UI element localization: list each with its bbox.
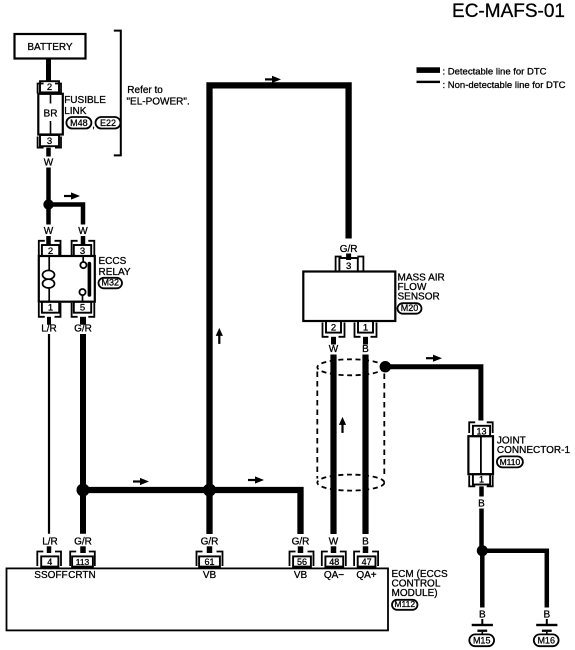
- wire shield drain to joint connector: [385, 367, 481, 421]
- wire stub below relay pin 1: [47, 317, 51, 325]
- svg-text:M20: M20: [401, 303, 419, 313]
- svg-text:48: 48: [329, 557, 339, 567]
- junction node on G/R wire: [77, 484, 90, 497]
- svg-text:VB: VB: [203, 570, 217, 581]
- current-flow arrow on bus (left): [133, 480, 141, 482]
- wire stub below relay pin 5: [80, 317, 86, 325]
- svg-text:E22: E22: [100, 118, 116, 128]
- wire stub to ECM pin 61: [207, 546, 213, 553]
- svg-text:47: 47: [362, 557, 372, 567]
- wire junction to relay pin 3 branch: [49, 205, 84, 225]
- current-flow arrow to relay pin 3: [64, 195, 72, 197]
- svg-text:M15: M15: [473, 636, 491, 646]
- junction node bus / VB supply line: [203, 484, 216, 497]
- power bus to VB pins: [83, 490, 301, 534]
- relay coil: [48, 256, 50, 271]
- relay pin 3: [72, 241, 78, 255]
- wire junction down to relay pin 2: [46, 205, 51, 225]
- wire stub to ECM pin 4: [47, 546, 52, 553]
- current-flow arrow on drain wire: [426, 357, 434, 359]
- relay switch blade: [88, 264, 92, 296]
- wire VB supply loop (thick): [210, 85, 349, 534]
- junction node shield to ground branch: [380, 361, 391, 372]
- joint connector pin 13: [469, 422, 475, 433]
- svg-text:5: 5: [80, 303, 85, 314]
- svg-text:BR: BR: [44, 109, 58, 120]
- svg-text:2: 2: [47, 82, 52, 93]
- ground M16: [546, 619, 548, 624]
- svg-text:W: W: [329, 536, 339, 547]
- ECM pin 56: [290, 552, 296, 567]
- svg-text:3: 3: [47, 136, 52, 147]
- svg-text:M110: M110: [500, 457, 521, 467]
- svg-text:W: W: [44, 158, 54, 169]
- wire G/R relay pin 5 to ECM pin 113 (thick): [80, 334, 86, 534]
- svg-text:B: B: [362, 344, 369, 355]
- mass air flow sensor body: [303, 272, 395, 322]
- MAFS pin 2: [323, 323, 329, 337]
- wire stub below MAFS pin 1: [363, 337, 368, 345]
- svg-text:CRTN: CRTN: [68, 570, 96, 581]
- ECM pin 48: [322, 552, 328, 567]
- svg-text:MODULE): MODULE): [392, 588, 438, 599]
- connector id M112: [392, 600, 418, 610]
- svg-text:QA−: QA−: [324, 570, 344, 581]
- current-flow arrow up inside shield: [341, 423, 343, 433]
- svg-text:1: 1: [479, 475, 484, 485]
- battery: [15, 34, 86, 59]
- svg-text:: Non-detectable line for DTC: : Non-detectable line for DTC: [443, 80, 566, 91]
- svg-text:SENSOR: SENSOR: [398, 292, 440, 303]
- wire stub to relay pin 3: [81, 236, 86, 245]
- svg-text:SSOFF: SSOFF: [34, 570, 67, 581]
- svg-text:L/R: L/R: [42, 536, 58, 547]
- connector id M20: [398, 303, 422, 314]
- junction node above ECCS relay: [43, 199, 53, 209]
- legend thin line sample: [417, 81, 441, 83]
- wire stub to ECM pin 56: [298, 546, 304, 553]
- relay pin 5: [72, 303, 78, 317]
- ECCS relay body: [39, 256, 95, 302]
- svg-text:VB: VB: [294, 570, 308, 581]
- ground M15: [481, 619, 483, 624]
- wire stub below pin 3 (W): [46, 148, 51, 157]
- legend thick line sample: [417, 67, 441, 73]
- connector pin 2 (fusible link top): [38, 84, 44, 94]
- connector id M110: [497, 456, 523, 467]
- MAFS pin 1: [355, 323, 361, 337]
- wire stub below MAFS pin 2: [331, 337, 336, 345]
- ground id M15: [469, 634, 494, 646]
- svg-text:113: 113: [76, 557, 90, 567]
- svg-text:G/R: G/R: [292, 536, 310, 547]
- wire stub below joint connector: [479, 486, 484, 496]
- relay pin 2: [39, 241, 45, 255]
- svg-text:EC-MAFS-01: EC-MAFS-01: [452, 1, 565, 22]
- svg-text:M16: M16: [537, 636, 555, 646]
- svg-text:3: 3: [346, 261, 351, 272]
- refer-to bracket: [114, 31, 121, 156]
- shield right side (dashed): [383, 374, 385, 478]
- svg-text:61: 61: [204, 557, 214, 567]
- svg-text:BATTERY: BATTERY: [27, 42, 73, 53]
- wire stub to MAFS pin 3: [346, 254, 351, 261]
- wire ground branch to M16: [482, 551, 547, 608]
- svg-text:G/R: G/R: [340, 244, 358, 255]
- wire W MAFS pin 2 to ECM pin 48: [330, 355, 336, 535]
- wire L/R relay pin 1 to ECM pin 4 (thin): [48, 334, 50, 534]
- svg-text:QA+: QA+: [356, 570, 376, 581]
- connector pin 3 (fusible link bottom): [38, 137, 44, 148]
- shield top (dashed): [317, 359, 384, 375]
- junction node ground split: [477, 545, 488, 556]
- fusible link body BR: [38, 94, 63, 135]
- ECM pin 4: [37, 552, 43, 567]
- wire stub to ECM pin 48: [331, 546, 337, 553]
- svg-text:"EL-POWER".: "EL-POWER".: [127, 97, 190, 108]
- svg-text:56: 56: [297, 557, 307, 567]
- svg-text:M112: M112: [394, 599, 415, 609]
- svg-text:B: B: [478, 498, 485, 509]
- current-flow arrow on bus (right): [248, 479, 256, 481]
- current-flow arrow up on VB line: [218, 334, 220, 344]
- svg-text:13: 13: [476, 426, 486, 436]
- svg-text:: Detectable line for DTC: : Detectable line for DTC: [443, 67, 547, 78]
- svg-text:4: 4: [47, 557, 52, 567]
- relay pin 1: [39, 303, 45, 317]
- ground id M16: [534, 634, 559, 646]
- wire ground branch to M15: [480, 551, 485, 608]
- connector id E22: [96, 117, 121, 129]
- svg-text:1: 1: [363, 323, 368, 334]
- shield bottom (dashed): [317, 475, 384, 491]
- wire battery to fusible link (W, thick): [46, 58, 51, 81]
- svg-text:W: W: [78, 226, 88, 237]
- svg-text:1: 1: [48, 303, 53, 314]
- svg-text:ECCS: ECCS: [99, 256, 127, 267]
- svg-text:CONNECTOR-1: CONNECTOR-1: [497, 445, 571, 456]
- wire stub to ECM pin 47: [363, 546, 369, 553]
- current-flow arrow on top loop: [265, 78, 273, 80]
- wire W fusible link to junction: [46, 168, 51, 203]
- svg-text:M32: M32: [101, 278, 119, 288]
- relay switch contacts: [82, 256, 84, 262]
- svg-text:G/R: G/R: [201, 536, 219, 547]
- shield left side (dashed): [316, 372, 318, 479]
- wire B MAFS pin 1 to ECM pin 47: [362, 355, 368, 535]
- wire stub to relay pin 2: [46, 236, 51, 245]
- svg-text:G/R: G/R: [74, 324, 92, 335]
- svg-text:,: ,: [92, 120, 95, 131]
- svg-text:FUSIBLE: FUSIBLE: [64, 95, 106, 106]
- ECM pin 61: [197, 552, 203, 567]
- svg-text:2: 2: [331, 323, 336, 334]
- ECM pin 47: [354, 552, 360, 567]
- ECM pin 113: [70, 552, 76, 567]
- svg-text:W: W: [329, 344, 339, 355]
- connector id M32: [99, 278, 123, 289]
- svg-text:W: W: [44, 226, 54, 237]
- connector id M48: [66, 117, 91, 129]
- joint connector pin 1: [469, 476, 475, 487]
- svg-text:LINK: LINK: [64, 106, 87, 117]
- svg-text:M48: M48: [70, 118, 88, 128]
- ECM body: [7, 568, 389, 630]
- wire stub to ECM pin 113: [80, 546, 86, 553]
- svg-text:L/R: L/R: [41, 324, 57, 335]
- joint connector body: [468, 436, 493, 474]
- svg-text:RELAY: RELAY: [99, 267, 131, 278]
- svg-text:G/R: G/R: [74, 536, 92, 547]
- MAFS pin 3: [336, 257, 342, 272]
- svg-text:B: B: [362, 536, 369, 547]
- wire B joint connector to ground junction: [479, 509, 484, 549]
- svg-text:Refer to: Refer to: [127, 85, 163, 96]
